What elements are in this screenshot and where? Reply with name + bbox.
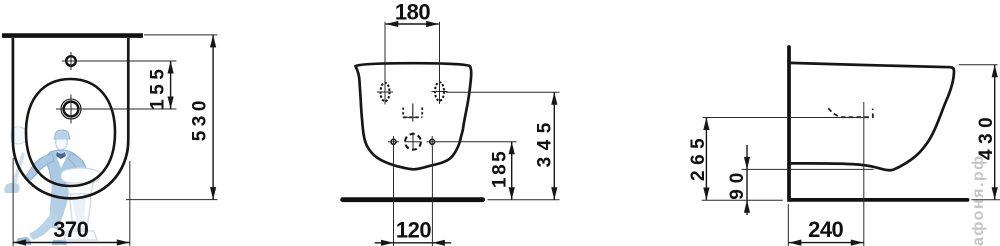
dimension 265	[688, 118, 866, 201]
side view: drain centreline	[863, 102, 865, 246]
svg-text:185: 185	[490, 149, 511, 188]
front view: left anchor hole	[388, 136, 399, 147]
dimension 345	[446, 92, 560, 199]
front view: body outline	[356, 63, 472, 169]
front view: right anchor hole	[427, 136, 439, 147]
svg-text:120: 120	[396, 217, 431, 242]
svg-text:530: 530	[189, 96, 210, 141]
dimension 90	[727, 145, 874, 215]
right arm resting on basin	[68, 154, 87, 173]
svg-text:265: 265	[688, 133, 709, 181]
front view: drain circle	[405, 132, 422, 151]
cap	[54, 130, 70, 139]
top view: tap hole	[66, 52, 76, 70]
front view: left fixing hole	[377, 80, 393, 105]
dimension 180	[385, 0, 440, 82]
dimension 430	[959, 65, 998, 200]
dimension 530	[126, 35, 218, 200]
front view: right fixing hole	[432, 79, 448, 104]
torso / jacket	[46, 150, 83, 184]
svg-text:345: 345	[535, 116, 556, 167]
top view: bowl rim	[26, 79, 115, 186]
pedestal basin	[61, 168, 100, 240]
shirt + bow tie	[56, 151, 67, 168]
dimension 185	[438, 142, 517, 200]
side view: wall and floor line	[789, 47, 968, 200]
side view: floor extension line	[971, 199, 1000, 201]
front view: overflow mark	[403, 104, 422, 122]
dimension 120	[375, 147, 452, 246]
dimension 370	[13, 158, 130, 246]
svg-text:430: 430	[976, 112, 997, 160]
svg-text:240: 240	[808, 217, 843, 242]
side view: hidden trap (dashed)	[828, 108, 873, 117]
boots	[17, 237, 32, 245]
svg-text:180: 180	[395, 0, 430, 25]
side view: body profile	[790, 63, 955, 170]
face	[56, 139, 67, 150]
top view: body outline	[13, 38, 128, 198]
plunger	[11, 152, 25, 188]
front view: floor line	[343, 197, 483, 202]
top view: drain hole	[61, 95, 81, 124]
trousers / legs	[49, 183, 70, 229]
svg-text:370: 370	[53, 217, 88, 242]
dimension 240	[788, 204, 864, 246]
left arm to plunger	[26, 154, 54, 180]
watermark: plumber figure	[4, 127, 100, 245]
svg-text:90: 90	[727, 167, 748, 200]
dimension 155	[56, 61, 177, 110]
svg-text:155: 155	[147, 65, 168, 110]
top view: back rim bar	[2, 33, 143, 38]
